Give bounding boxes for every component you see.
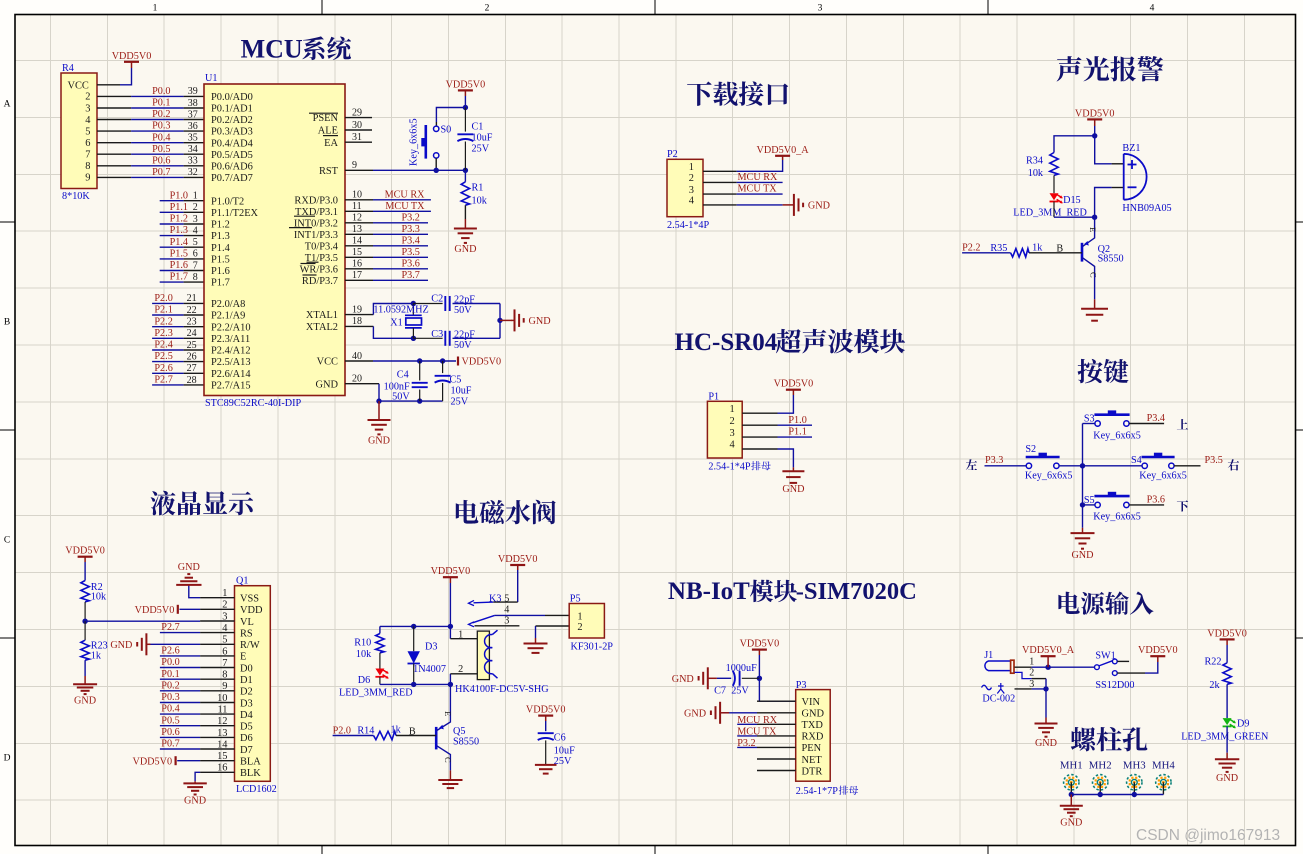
resistor R14 [333, 724, 437, 739]
wire key bottom to RST rail [435, 158, 437, 170]
svg-text:P3.4: P3.4 [401, 235, 419, 246]
svg-text:3: 3 [222, 611, 227, 622]
svg-text:P1.1: P1.1 [170, 202, 188, 213]
wire R4 pin9 to U1 P0.7 [97, 176, 204, 178]
capacitor C4 [384, 361, 428, 403]
wire node to key top [436, 108, 465, 127]
svg-text:15: 15 [217, 751, 227, 762]
svg-text:4: 4 [729, 440, 735, 451]
svg-text:36: 36 [188, 121, 198, 132]
svg-text:2.54-1*4P: 2.54-1*4P [708, 462, 751, 473]
svg-text:VL: VL [240, 617, 254, 628]
resistor R2 [81, 562, 107, 603]
mounting hole MH1 [1060, 760, 1083, 790]
svg-text:K3: K3 [489, 594, 501, 605]
svg-text:14: 14 [352, 236, 362, 247]
svg-text:1k: 1k [1032, 242, 1043, 253]
svg-text:P0.3: P0.3 [152, 121, 170, 132]
svg-text:23: 23 [187, 317, 197, 328]
wire GND pin20 down [376, 384, 381, 404]
svg-text:P2.2/A10: P2.2/A10 [211, 322, 251, 333]
svg-text:GND: GND [802, 709, 825, 720]
svg-text:22pF: 22pF [454, 330, 475, 341]
connector P2 body [667, 149, 710, 231]
Q1 pin 6 E [200, 646, 246, 662]
label down [1177, 500, 1188, 511]
svg-text:10k: 10k [356, 649, 372, 660]
P3 pin 4 RXD [757, 732, 824, 743]
power VDD5V0 (valve coil) [431, 566, 471, 583]
wire to GND (pin20) [378, 401, 380, 419]
power VDD5V0_A (P2) [757, 145, 810, 160]
wire MH gnd [1070, 795, 1072, 806]
resistor network R4 [61, 63, 97, 202]
ground (J1) [1035, 724, 1058, 749]
svg-text:BLK: BLK [240, 768, 261, 779]
svg-text:13: 13 [217, 728, 227, 739]
wire trunk to S5 [1080, 502, 1095, 507]
svg-text:P3: P3 [796, 680, 807, 691]
svg-text:D2: D2 [240, 687, 253, 698]
ground (D9) [1215, 759, 1239, 784]
Q1 pin 12 D5 [200, 716, 253, 732]
svg-text:SS12D00: SS12D00 [1095, 680, 1134, 691]
power VDD5V0 (reset) [446, 79, 486, 96]
wire Q1 D3 [160, 702, 200, 704]
wire P1.0 net [778, 424, 813, 426]
wire MCU TX [373, 210, 431, 212]
svg-text:P2.1: P2.1 [154, 305, 172, 316]
svg-text:GND: GND [808, 201, 830, 212]
svg-text:2: 2 [689, 173, 694, 184]
svg-text:4: 4 [222, 623, 228, 634]
resistor R1 [461, 170, 487, 206]
wire crystal right rail [497, 304, 502, 339]
wire Q1 D2 [160, 690, 200, 692]
U1 left pin names P2 [211, 299, 251, 392]
svg-text:18: 18 [352, 316, 362, 327]
svg-text:25V: 25V [554, 756, 572, 767]
svg-text:GND: GND [1216, 773, 1238, 784]
wire net P2.2 [152, 326, 204, 328]
U1 pin EA [324, 132, 372, 149]
ground (C7) [672, 667, 717, 689]
svg-text:11: 11 [217, 705, 227, 716]
power VDD5V0 (P3) [740, 639, 780, 655]
wire P3.6 [373, 268, 428, 270]
wire VDD (Q1) [180, 608, 201, 610]
ground (crystal) [500, 309, 551, 331]
wire MCU RX [373, 199, 431, 201]
svg-text:D1: D1 [240, 675, 253, 686]
svg-text:VDD5V0: VDD5V0 [740, 639, 780, 650]
wire RS [160, 632, 200, 634]
svg-text:HK4100F-DC5V-SHG: HK4100F-DC5V-SHG [455, 684, 549, 695]
svg-text:8: 8 [222, 670, 227, 681]
svg-text:Key_6x6x5: Key_6x6x5 [1093, 512, 1141, 523]
svg-text:E: E [1088, 227, 1098, 232]
ground (Q1 BLK) [183, 783, 206, 806]
svg-text:3: 3 [504, 616, 509, 627]
wire R4 pin2 to U1 P0.0 [97, 95, 204, 97]
svg-text:D4: D4 [240, 710, 254, 721]
key S3 [1084, 411, 1141, 441]
svg-text:S0: S0 [441, 125, 452, 136]
wire node to R10/D3 [380, 624, 451, 629]
svg-text:S8550: S8550 [1098, 254, 1124, 265]
ground (Q5) [438, 780, 462, 788]
wire R4 pin4 to U1 P0.2 [97, 119, 204, 121]
svg-text:MCU TX: MCU TX [738, 184, 778, 195]
svg-text:3: 3 [689, 185, 694, 196]
svg-text:R22: R22 [1205, 657, 1222, 668]
wire P2.1 to VDD5V0_A [737, 160, 783, 171]
svg-text:C3: C3 [431, 329, 443, 340]
svg-text:P2.3: P2.3 [154, 328, 172, 339]
svg-text:P1.6: P1.6 [211, 266, 230, 277]
svg-text:P2.6: P2.6 [161, 646, 179, 657]
svg-text:P3.2: P3.2 [401, 212, 419, 223]
resistor R22 [1205, 645, 1232, 691]
svg-text:GND: GND [454, 244, 476, 255]
svg-text:P1.2: P1.2 [211, 220, 230, 231]
svg-text:10uF: 10uF [472, 133, 493, 144]
svg-text:P2.3/A11: P2.3/A11 [211, 334, 250, 345]
LED D9 [1181, 718, 1269, 743]
svg-text:MH4: MH4 [1152, 760, 1175, 772]
wire P2.4 to GND [737, 204, 791, 206]
svg-text:S2: S2 [1025, 444, 1036, 455]
wire D15 to node [1054, 202, 1097, 220]
wire P3.5 [373, 256, 428, 258]
svg-text:D5: D5 [240, 722, 253, 733]
svg-text:3: 3 [818, 4, 823, 14]
wire R23 to GND [84, 660, 86, 684]
P2 pin 1 [689, 162, 737, 173]
svg-text:P2.7: P2.7 [161, 622, 179, 633]
capacitor C7 [714, 663, 759, 696]
wire buzzer + lead [1095, 136, 1124, 164]
svg-text:P0.7: P0.7 [161, 739, 179, 750]
wire Q1 D4 [160, 713, 200, 715]
U1 pin XTAL2 [306, 316, 373, 333]
svg-text:TXD: TXD [802, 720, 824, 731]
wire P3.2 [373, 222, 428, 224]
svg-text:P1.0: P1.0 [170, 190, 188, 201]
P3 pin 6 NET [757, 755, 822, 766]
svg-text:P3.2: P3.2 [737, 738, 755, 749]
svg-text:P0.1/AD1: P0.1/AD1 [211, 104, 253, 115]
svg-text:P0.4/AD4: P0.4/AD4 [211, 138, 254, 149]
svg-text:P0.0: P0.0 [161, 657, 179, 668]
title sound light alarm [1057, 56, 1164, 81]
svg-text:-SIM7020C: -SIM7020C [796, 578, 917, 605]
svg-text:D9: D9 [1237, 719, 1249, 730]
U1 pin WR/P3.6 [300, 259, 373, 276]
wire P3.7 [373, 279, 428, 281]
svg-text:7: 7 [222, 658, 227, 669]
wire SW1 bottom to VDD5V0 [1117, 662, 1158, 673]
wire net P1.6 [160, 270, 204, 272]
svg-text:PSEN: PSEN [313, 113, 339, 124]
svg-text:10k: 10k [91, 592, 107, 603]
svg-text:P0.5: P0.5 [161, 715, 179, 726]
svg-text:D3: D3 [240, 698, 253, 709]
svg-text:RD/P3.7: RD/P3.7 [302, 276, 338, 287]
svg-text:VDD5V0: VDD5V0 [132, 756, 172, 767]
svg-text:10k: 10k [1028, 168, 1044, 179]
power VDD5V0 (R22) [1207, 628, 1247, 645]
svg-text:RXD: RXD [802, 732, 824, 743]
ground (keys) [1071, 533, 1095, 561]
svg-text:MCU RX: MCU RX [737, 715, 778, 726]
svg-text:2.54-1*7P: 2.54-1*7P [796, 786, 839, 797]
overline RD [303, 274, 317, 276]
power VDD5V0 (relay common) [498, 554, 538, 570]
svg-text:2: 2 [1029, 668, 1034, 679]
power VDD5V0 (Q1 VDD) [135, 605, 178, 616]
svg-text:P2.0: P2.0 [333, 725, 351, 736]
ground (P2) [791, 194, 830, 216]
svg-text:PEN: PEN [802, 743, 822, 754]
svg-text:P0.2: P0.2 [161, 680, 179, 691]
svg-text:VDD5V0_A: VDD5V0_A [757, 145, 810, 156]
wire net P1.1 [160, 211, 204, 213]
svg-text:D6: D6 [358, 675, 370, 686]
ground (reset R1) [454, 229, 477, 256]
wire P3.4 [373, 245, 428, 247]
svg-text:C: C [1089, 272, 1099, 278]
svg-text:13: 13 [352, 224, 362, 235]
svg-text:16: 16 [217, 763, 227, 774]
svg-text:VDD5V0: VDD5V0 [446, 79, 486, 90]
wire P3 GND [723, 712, 758, 714]
power VDD5V0 (C6) [526, 705, 566, 721]
svg-text:P0.6/AD6: P0.6/AD6 [211, 161, 253, 172]
svg-text:2.54-1*4P: 2.54-1*4P [667, 220, 710, 231]
svg-text:17: 17 [352, 270, 362, 281]
svg-text:R10: R10 [354, 637, 371, 648]
svg-text:R4: R4 [62, 63, 74, 74]
capacitor C6 [538, 721, 575, 767]
Q1 pin 4 RS [200, 623, 253, 639]
svg-text:P2.5: P2.5 [154, 351, 172, 362]
svg-text:MCU RX: MCU RX [738, 172, 779, 183]
svg-text:J1: J1 [984, 650, 993, 661]
svg-text:EA: EA [324, 138, 338, 149]
title NB-IoT [668, 578, 917, 605]
svg-text:VDD5V0_A: VDD5V0_A [1022, 645, 1075, 656]
svg-text:P0.4: P0.4 [152, 132, 170, 143]
svg-text:ALE: ALE [318, 126, 338, 137]
svg-text:P2.6/A14: P2.6/A14 [211, 369, 251, 380]
svg-text:D3: D3 [425, 642, 437, 653]
power VDD5V0 (Q1 BLA) [132, 756, 175, 767]
svg-text:P2.4: P2.4 [154, 340, 172, 351]
key S2 [1025, 444, 1073, 482]
wire D6 to rail [379, 677, 381, 685]
svg-text:NET: NET [802, 755, 823, 766]
ground (Q1 RW) [110, 633, 150, 655]
P2 pin 2 [689, 173, 737, 184]
svg-text:P5: P5 [570, 593, 581, 604]
wire S3 right [1129, 423, 1164, 425]
wire R34 to D15 [1053, 175, 1055, 193]
svg-text:11.0592MHZ: 11.0592MHZ [373, 304, 428, 315]
wire VDD to C1/S0 node [463, 96, 468, 110]
connector Q1 LCD1602 body [235, 575, 277, 795]
svg-text:14: 14 [217, 739, 228, 750]
svg-text:VCC: VCC [68, 80, 89, 91]
svg-text:R34: R34 [1026, 155, 1043, 166]
svg-text:GND: GND [184, 796, 206, 807]
Q1 pin 8 D1 [200, 670, 253, 686]
wire P1.4 to GND [778, 449, 794, 471]
svg-text:35: 35 [188, 133, 198, 144]
svg-text:Key_6x6x5: Key_6x6x5 [1093, 430, 1141, 441]
wire SW1 top stub [1117, 660, 1129, 662]
svg-text:5: 5 [193, 237, 198, 248]
wire MCU TX (P3) [737, 735, 757, 737]
capacitor C5 [435, 361, 472, 408]
svg-text:BZ1: BZ1 [1122, 143, 1140, 154]
svg-text:VDD5V0: VDD5V0 [65, 546, 105, 557]
svg-text:1000uF: 1000uF [726, 663, 757, 674]
svg-text:1k: 1k [391, 724, 402, 735]
svg-text:2: 2 [485, 4, 490, 14]
svg-text:4: 4 [193, 225, 198, 236]
svg-text:2: 2 [577, 622, 582, 633]
svg-text:VSS: VSS [240, 594, 259, 605]
wire Q1 D7 [160, 748, 200, 750]
U1 pin T0/P3.4 [305, 236, 373, 253]
U1 pin RD/P3.7 [302, 270, 373, 287]
svg-text:P1.0: P1.0 [788, 415, 806, 426]
svg-text:P0.4: P0.4 [161, 704, 179, 715]
overline EA [323, 135, 338, 137]
wire S5 right [1129, 504, 1164, 506]
Q1 pin 5 R/W [200, 635, 260, 651]
svg-text:C2: C2 [431, 294, 443, 305]
svg-text:1: 1 [729, 404, 734, 415]
P1 pin 3 [729, 428, 777, 439]
svg-text:MCU RX: MCU RX [385, 189, 426, 200]
svg-text:9: 9 [352, 160, 357, 171]
U1 pin TXD/P3.1 [295, 201, 373, 218]
svg-text:P0.5/AD5: P0.5/AD5 [211, 150, 253, 161]
svg-text:R1: R1 [472, 183, 484, 194]
Q1 pin 16 BLK [200, 763, 261, 779]
transistor Q2 [1082, 217, 1124, 278]
title LCD display [151, 491, 254, 516]
svg-text:MH2: MH2 [1089, 760, 1112, 772]
svg-text:Q1: Q1 [236, 575, 248, 586]
svg-text:P0.1: P0.1 [152, 98, 170, 109]
svg-text:P1.4: P1.4 [170, 237, 188, 248]
svg-text:E: E [443, 711, 453, 716]
svg-text:MCU TX: MCU TX [385, 201, 425, 212]
svg-text:STC89C52RC-40I-DIP: STC89C52RC-40I-DIP [205, 398, 302, 409]
svg-text:DTR: DTR [802, 766, 823, 777]
svg-text:6: 6 [193, 249, 198, 260]
wire net P1.3 [160, 235, 204, 237]
svg-text:HC-SR04: HC-SR04 [675, 329, 778, 356]
switch SW1 [1095, 651, 1135, 692]
svg-text:16: 16 [352, 259, 362, 270]
wire MCU RX (P3) [737, 723, 757, 725]
power VDD5V0 (R4) [112, 51, 152, 68]
svg-text:C7: C7 [714, 685, 726, 696]
svg-text:S4: S4 [1131, 455, 1142, 466]
Q1 pin 15 BLA [200, 751, 261, 767]
svg-text:25V: 25V [472, 144, 490, 155]
wire Q5 collector to GND [449, 770, 451, 779]
connector P5 body [569, 593, 613, 652]
svg-text:8: 8 [85, 161, 90, 172]
wire S2 left [985, 465, 1027, 467]
label left [966, 459, 977, 470]
svg-text:28: 28 [187, 375, 197, 386]
overline WR [301, 263, 316, 265]
wire RST rail [373, 168, 468, 173]
U1 pin T1/P3.5 [305, 247, 373, 264]
capacitor C2 [413, 294, 500, 316]
svg-text:INT1/P3.3: INT1/P3.3 [294, 230, 338, 241]
svg-text:P1.1: P1.1 [788, 427, 806, 438]
key S0 [409, 118, 452, 166]
svg-text:VDD5V0: VDD5V0 [774, 379, 814, 390]
svg-text:24: 24 [187, 328, 197, 339]
relay K3 coil [450, 626, 549, 695]
wire net P2.4 [152, 349, 204, 351]
svg-text:B: B [1056, 244, 1063, 255]
svg-text:7: 7 [85, 150, 90, 161]
wire net P2.1 [152, 314, 204, 316]
svg-text:P0.0/AD0: P0.0/AD0 [211, 92, 253, 103]
svg-text:25V: 25V [731, 685, 749, 696]
svg-text:4: 4 [1150, 4, 1155, 14]
wire net P2.6 [152, 372, 204, 374]
U1 pin RST [319, 160, 373, 177]
svg-text:P1.2: P1.2 [170, 214, 188, 225]
wire R4 pin6 to U1 P0.4 [97, 142, 204, 144]
svg-text:P0.6: P0.6 [161, 727, 179, 738]
wire relay pin3 stub [475, 625, 520, 627]
svg-text:VDD5V0: VDD5V0 [112, 51, 152, 62]
P1 pin 4 [729, 440, 777, 451]
svg-text:MH1: MH1 [1060, 760, 1083, 772]
label P3 footprint [796, 786, 859, 797]
capacitor C1 [457, 108, 492, 171]
svg-text:4: 4 [85, 115, 91, 126]
Q1 pin 13 D6 [200, 728, 253, 744]
wire key trunk [1082, 424, 1084, 534]
wire E [160, 655, 200, 657]
P3 pin 7 DTR [757, 766, 822, 777]
svg-text:MCU TX: MCU TX [737, 727, 777, 738]
svg-text:VDD5V0: VDD5V0 [1138, 645, 1178, 656]
svg-text:2k: 2k [1209, 680, 1220, 691]
diode D3 1N4007 [408, 626, 446, 684]
svg-text:2: 2 [729, 416, 734, 427]
svg-text:GND: GND [315, 379, 338, 390]
svg-text:P2.5/A13: P2.5/A13 [211, 357, 251, 368]
wire net P1.0 [160, 200, 204, 202]
title MCU system [241, 34, 351, 63]
svg-text:VDD5V0: VDD5V0 [498, 554, 538, 565]
ground (P5) [524, 644, 548, 653]
wire S2 right to trunk [1059, 463, 1085, 468]
